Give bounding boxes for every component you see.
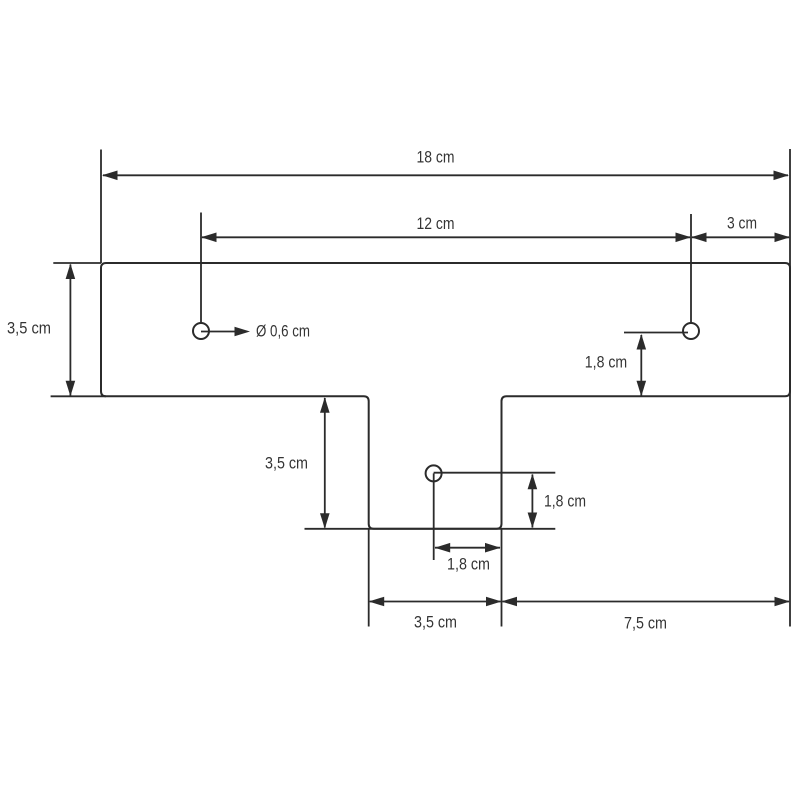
dimension 1,8 cm center vertical line bbox=[531, 475, 533, 528]
dimension 12 cm right arrowhead bbox=[676, 233, 692, 243]
svg-text:3,5 cm: 3,5 cm bbox=[7, 320, 51, 338]
svg-text:Ø 0,6 cm: Ø 0,6 cm bbox=[256, 323, 310, 341]
extension line left hole bbox=[200, 213, 202, 332]
svg-text:1,8 cm: 1,8 cm bbox=[544, 493, 586, 511]
svg-text:1,8 cm: 1,8 cm bbox=[447, 556, 490, 574]
dimension 3 cm line bbox=[692, 236, 789, 238]
dimension 3,5 cm left bottom arrowhead bbox=[66, 381, 76, 397]
dimension 7,5 cm bottom right arrowhead bbox=[775, 597, 791, 607]
tab bottom extension line bbox=[305, 528, 556, 530]
dimension 1,8 cm right top arrowhead bbox=[637, 334, 647, 350]
dimension 7,5 cm bottom left arrowhead bbox=[502, 597, 518, 607]
svg-text:3 cm: 3 cm bbox=[727, 215, 757, 233]
dimension 18 cm left arrowhead bbox=[102, 171, 118, 181]
dimension 18 cm right arrowhead bbox=[774, 171, 790, 181]
svg-text:3,5 cm: 3,5 cm bbox=[414, 614, 457, 632]
extension line top left bbox=[53, 262, 101, 264]
leader arrowhead hole diameter bbox=[235, 327, 251, 337]
dimension 1,8 cm center horizontal line bbox=[435, 547, 500, 549]
svg-text:7,5 cm: 7,5 cm bbox=[624, 615, 667, 633]
dimension 1,8 cm center vertical bottom arrowhead bbox=[528, 513, 538, 529]
extension line tab left below bbox=[368, 529, 370, 627]
hole H1 left bbox=[193, 323, 209, 339]
dimension 3,5 cm bottom right arrowhead bbox=[486, 597, 502, 607]
dimension 7,5 cm bottom line bbox=[503, 601, 790, 603]
dimension 1,8 cm center horizontal left arrowhead bbox=[435, 543, 451, 553]
dimension 1,8 cm center horizontal right arrowhead bbox=[485, 543, 501, 553]
extension line right hole horizontal bbox=[624, 332, 688, 334]
dimension 3,5 cm middle line bbox=[324, 398, 326, 528]
line right of center hole bbox=[434, 472, 556, 474]
dimension 12 cm left arrowhead bbox=[201, 233, 217, 243]
dimension 3,5 cm left line bbox=[69, 265, 71, 396]
dimension 18 cm line bbox=[103, 174, 788, 176]
svg-text:1,8 cm: 1,8 cm bbox=[585, 354, 627, 372]
dimension 1,8 cm center vertical top arrowhead bbox=[528, 474, 538, 490]
dimension 1,8 cm right bottom arrowhead bbox=[637, 381, 647, 397]
dimension 3,5 cm bottom line bbox=[370, 601, 501, 603]
leader line hole diameter bbox=[201, 331, 247, 333]
plate outline (T-shaped part) bbox=[101, 263, 790, 529]
extension line tab right below bbox=[501, 529, 503, 627]
dimension 3,5 cm left top arrowhead bbox=[66, 264, 76, 280]
hole H3 center bbox=[426, 465, 442, 481]
dimension 3,5 cm middle top arrowhead bbox=[320, 397, 330, 413]
extension line right hole bbox=[690, 214, 692, 331]
extension line left edge bbox=[100, 150, 102, 264]
dimension 1,8 cm right line bbox=[640, 335, 642, 396]
svg-text:12 cm: 12 cm bbox=[417, 215, 455, 233]
extension line bottom left bbox=[51, 395, 106, 397]
svg-text:18 cm: 18 cm bbox=[417, 148, 455, 166]
extension line right edge bbox=[789, 149, 791, 627]
dimension 3,5 cm middle bottom arrowhead bbox=[320, 513, 330, 529]
dimension 3 cm right arrowhead bbox=[775, 233, 791, 243]
hole H2 right bbox=[683, 323, 699, 339]
dimension 3 cm left arrowhead bbox=[691, 233, 707, 243]
dimension 12 cm line bbox=[202, 236, 690, 238]
dimension 3,5 cm bottom left arrowhead bbox=[369, 597, 385, 607]
line below center hole bbox=[433, 473, 435, 560]
svg-text:3,5 cm: 3,5 cm bbox=[265, 455, 308, 473]
